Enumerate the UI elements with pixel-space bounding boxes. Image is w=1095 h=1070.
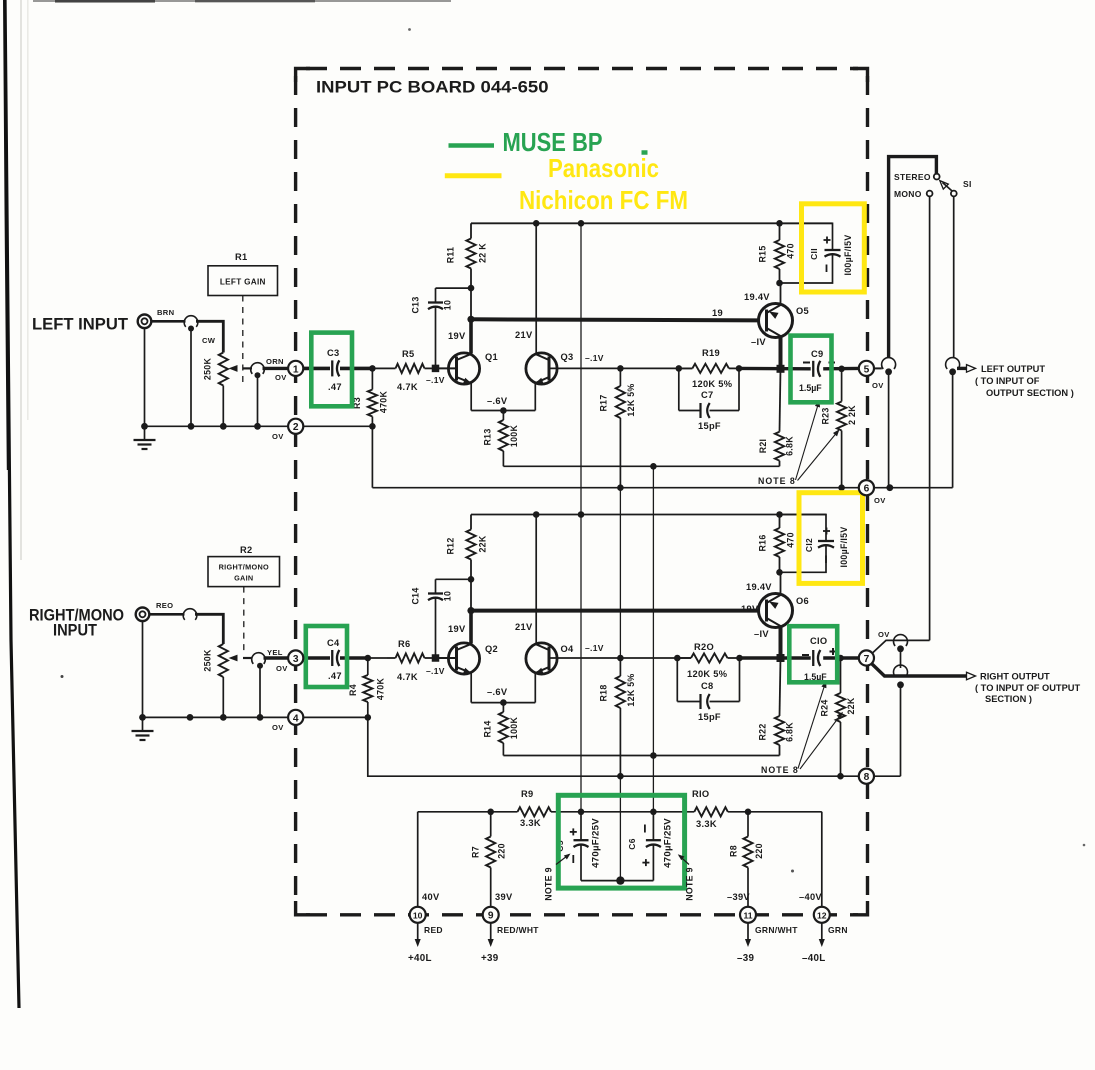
svg-text:–IV: –IV [751,337,766,347]
svg-text:19.4V: 19.4V [744,292,770,302]
resistor R21 [780,369,781,432]
wire lower loop node down to terminal 8 wire [900,686,902,776]
svg-text:GRN: GRN [828,925,848,935]
svg-text:Q3: Q3 [561,352,574,362]
node R23 bottom on NOTE8 rail [838,484,845,491]
PC board dashed border [294,76,297,908]
annotation green box C5 C6 [558,795,684,888]
svg-text:+39: +39 [481,953,499,964]
thick wire R19 right to terminal 5 [739,367,811,371]
wire terminal 10 tail with arrow [417,923,419,941]
node Q5 collector on output wire [777,365,785,373]
wire positive rail channel 2 [471,514,826,516]
resistor R19 [679,367,693,369]
svg-text:10: 10 [443,591,453,601]
svg-text:OV: OV [878,630,890,639]
svg-text:RED: RED [424,925,443,935]
svg-text:4.7K: 4.7K [397,672,418,682]
svg-text:19V: 19V [448,624,466,634]
thick wire Q2 collector to Q6 base [471,609,759,613]
connector loop left output [946,358,960,369]
svg-text:CI2: CI2 [804,538,814,552]
thick wire Q1 collector to Q5 base [471,319,759,320]
svg-text:19.4V: 19.4V [746,582,772,592]
svg-text:220: 220 [754,843,764,859]
svg-text:10: 10 [413,911,423,921]
node R19 right [736,365,743,372]
svg-text:I00µF/I5V: I00µF/I5V [843,234,853,275]
svg-text:4.7K: 4.7K [397,382,418,392]
svg-text:220: 220 [497,843,507,859]
wire 0V rail right input [143,716,289,718]
input jack J1 left [138,315,152,329]
node R15 top [776,220,783,227]
connector loop lower at terminal 7 [894,665,908,676]
svg-text:470µF/25V: 470µF/25V [663,818,674,868]
wire terminal 11 tail with arrow [747,923,749,941]
node C6 top [650,809,657,816]
svg-text:120K 5%: 120K 5% [687,669,728,679]
svg-text:C3: C3 [327,348,339,358]
svg-text:250K: 250K [203,649,213,672]
svg-text:100K: 100K [509,425,519,448]
wire terminal 12 tail with arrow [821,923,823,941]
svg-text:OV: OV [272,723,284,732]
svg-text:R2O: R2O [694,642,714,652]
node terminal 6 junction [886,484,893,491]
svg-text:R2: R2 [240,545,252,555]
svg-text:CII: CII [809,248,819,260]
node R11 bottom / C13 [468,285,475,292]
svg-text:–40V: –40V [799,892,822,902]
ground left input [134,439,156,441]
dashed coupling line R1 to pot [242,296,244,387]
svg-text:40V: 40V [422,892,440,902]
node below YEL loop [257,663,263,669]
wire terminal 1 to C3 [303,367,330,371]
svg-text:C4: C4 [327,638,340,648]
svg-text:–IV: –IV [754,629,769,639]
resistor R17 [619,368,621,386]
capacitor C10 [812,650,814,666]
C9 polarity marks [803,362,810,364]
wire R14 bottom rail to R22 [503,755,779,757]
node C6 line on rail 2 [650,752,657,759]
thick wire R20 right to terminal 7 [740,656,811,659]
svg-text:12K 5%: 12K 5% [626,383,636,416]
svg-text:5: 5 [864,364,870,375]
svg-text:R5: R5 [402,349,414,359]
svg-text:–.1V: –.1V [426,375,445,385]
node Q2 base junction [432,654,440,662]
svg-text:–.6V: –.6V [487,396,508,406]
svg-text:ORN: ORN [266,357,284,366]
terminal 8 [859,769,874,784]
thick wire collector drop to Q2 [469,611,473,644]
node center tap on ground link [616,876,624,884]
thick wire Q5 collector down to output [779,337,783,369]
svg-text:470K: 470K [376,678,386,701]
node thick bus channel 2 [467,607,474,614]
thick wire Q6 collector down to output [779,627,783,659]
svg-text:12K 5%: 12K 5% [626,673,636,706]
node C3/R3/R5 [369,365,376,372]
transistor Q5 [759,304,793,338]
wire ground link C5 C6 [581,880,653,882]
svg-text:R2I: R2I [758,439,768,454]
svg-text:.47: .47 [328,382,342,392]
NOTE 8 rail channel 2 [390,775,859,777]
NOTE 8 rail channel 1 [372,487,858,489]
node C10 right / R24 top [837,655,844,662]
wire rail to terminal 12 [821,812,823,907]
terminal 5 [859,361,874,376]
svg-text:R24: R24 [820,699,830,716]
wire junction to Q2 base [436,657,457,659]
svg-text:R15: R15 [758,245,768,262]
wire Q5 emitter up to R15 bottom [780,283,782,305]
wire Q3 emitter down [534,384,536,411]
svg-text:6.8K: 6.8K [785,722,795,742]
svg-text:Panasonic: Panasonic [548,153,659,183]
svg-text:15pF: 15pF [698,421,721,431]
node C4/R4/R6 [365,655,372,662]
node rail to C5 line [578,220,585,227]
wire terminal 2 to R3 bottom [303,425,372,427]
svg-text:NOTE 9: NOTE 9 [544,867,554,901]
svg-text:–40L: –40L [802,953,826,964]
left margin scan streaks [20,0,22,560]
wire Q4 collector to rail2 [535,515,537,644]
NOTE8 arrows to C9 and R23 [796,402,820,481]
svg-text:22K: 22K [846,697,856,714]
svg-text:12: 12 [817,911,827,921]
svg-text:O5: O5 [796,306,809,316]
node C5 top [578,809,585,816]
input jack J2 right [136,608,150,622]
thick wire left output arrow [957,367,967,370]
annotation green box C10 [789,626,837,682]
svg-text:R6: R6 [398,639,410,649]
svg-text:Q1: Q1 [485,352,498,362]
C12 plus mark [823,530,830,532]
wire Q2 emitter down [470,674,472,703]
wire C3 to node [340,367,372,371]
C11 minus mark [826,265,828,273]
svg-text:19: 19 [712,308,723,318]
wire 0V rail left input [145,425,289,427]
C12 minus mark [825,556,827,564]
svg-text:6.8K: 6.8K [785,436,795,456]
wire terminal 9 tail with arrow [490,923,492,941]
wire loop to pot corner [196,321,223,352]
C6 minus mark [644,825,646,833]
svg-text:R9: R9 [521,789,533,799]
node thick bus channel 1 [467,316,474,323]
wire YEL loop node down [259,667,261,717]
wire jack to ground right [142,621,144,731]
connector loop left input [184,316,198,327]
NOTE9 left arrow [556,855,569,865]
stray mark [61,675,64,678]
legend green tick [642,150,648,155]
annotation yellow box C12 [799,493,863,584]
annotation green box C4 [306,626,347,687]
resistor R23 [841,369,843,402]
node R16 top [776,511,783,518]
node below left output loop [949,368,956,375]
svg-text:LEFT GAIN: LEFT GAIN [220,278,266,287]
svg-text:SI: SI [963,179,972,189]
C5 minus mark [572,855,574,863]
svg-text:4: 4 [293,713,299,724]
wire Q3 collector to rail [535,223,537,353]
wire wiper to loop [222,386,224,427]
svg-text:R4: R4 [348,684,358,696]
ground right input [132,730,154,732]
svg-text:R11: R11 [446,247,456,264]
svg-text:2 2K: 2 2K [847,405,857,425]
svg-text:CW: CW [202,336,216,345]
annotation green box C9 [791,336,832,403]
node R7 top [487,809,494,816]
svg-text:Q2: Q2 [485,644,498,654]
node C6 drop line on rail [650,463,657,470]
resistor R18 [619,658,621,676]
svg-text:BRN: BRN [157,308,174,317]
svg-text:STEREO: STEREO [894,172,931,182]
node rail2 line B crossing [578,511,585,518]
wire positive rail channel 1 [471,222,833,224]
svg-text:INPUT PC BOARD 044-650: INPUT PC BOARD 044-650 [316,79,549,97]
wire R12 to thick bus node 2 [470,579,472,610]
terminal 10 [410,907,426,923]
svg-text:LEFT INPUT: LEFT INPUT [32,316,128,334]
node R14 top [500,699,507,706]
terminal 7 [859,650,874,665]
svg-text:RED/WHT: RED/WHT [497,925,539,935]
border corner top-left [296,69,310,83]
wire Q3 base to R17/R19 [549,367,692,369]
node below lower loop 7 [897,681,904,688]
terminal 1 [288,361,303,376]
transistor Q2 [448,643,479,674]
node R8 top [745,809,752,816]
svg-text:–.1V: –.1V [585,643,604,653]
node R24 bottom on NOTE8 rail 2 [837,773,844,780]
svg-text:REO: REO [156,601,173,610]
svg-text:39V: 39V [495,892,513,902]
capacitor C5 electrolytic [580,812,582,841]
wire node to R5 [372,367,387,369]
svg-text:OUTPUT SECTION ): OUTPUT SECTION ) [986,388,1074,398]
thick wire right output arrow [872,664,967,677]
svg-text:OV: OV [275,373,287,382]
svg-text:–.1V: –.1V [585,353,604,363]
resistor R4 [367,658,369,675]
node Q1 base junction [432,365,440,373]
resistor R15 [779,223,781,240]
node rail2 to Q4 collector line [533,511,540,518]
svg-text:SECTION ): SECTION ) [985,694,1032,704]
svg-text:100K: 100K [509,717,519,740]
svg-text:C9: C9 [811,349,823,359]
svg-text:22K: 22K [478,535,488,552]
thick wire terminal 5 riser to switch [889,157,937,358]
border corner top-right [853,69,868,83]
transistor Q3 [526,353,557,384]
C10 polarity marks [802,654,809,656]
svg-text:–.1V: –.1V [426,666,445,676]
svg-text:R13: R13 [483,428,493,445]
svg-text:R18: R18 [599,684,609,701]
resistor R24 [840,658,842,693]
terminal 4 [288,710,303,725]
capacitor C11 electrolytic [780,223,833,250]
resistor R22 [780,658,781,716]
svg-text:19V: 19V [448,331,466,341]
resistor R5 [387,367,396,369]
wire to terminal 1 [263,367,289,370]
connector loop ORN [251,363,265,374]
wire Q4 base to R18/R20 [549,657,691,659]
wire mono contact down to right channel [929,197,931,641]
capacitor C3 [331,360,333,376]
node R4 bottom [365,714,372,721]
C6 plus mark [642,862,649,864]
node R16 bottom [776,569,783,576]
connector loop YEL [252,653,266,664]
node C9 right / R23 top [838,366,845,373]
wire switch arm contact down to left output [953,197,955,358]
NOTE8-2 arrows to C10 and R24 [798,683,826,769]
svg-text:LEFT OUTPUT: LEFT OUTPUT [981,364,1045,374]
svg-text:22 K: 22 K [478,243,488,263]
node below upper loop 7 [897,645,904,652]
svg-text:470: 470 [786,243,796,259]
svg-text:15pF: 15pF [698,712,721,722]
svg-text:CIO: CIO [810,636,827,646]
switch S1 arm with arrowhead [937,178,948,189]
svg-text:NOTE 8: NOTE 8 [758,476,796,486]
node R13 top [500,407,507,414]
wire line B rail1 to C5 [580,223,582,812]
svg-text:YEL: YEL [267,648,283,657]
node R20 left [674,655,681,662]
svg-text:1: 1 [293,364,299,375]
svg-text:21V: 21V [515,330,533,340]
capacitor C7 with bracket [678,368,680,410]
svg-text:2: 2 [293,422,299,433]
svg-text:R12: R12 [446,537,456,554]
svg-text:R7: R7 [471,846,481,858]
NOTE9 right arrow [679,856,689,865]
potentiometer 250K left [219,353,228,386]
wire R13 bottom rail to R21 [503,465,779,467]
svg-text:7: 7 [864,654,870,665]
svg-text:NOTE 9: NOTE 9 [684,867,694,901]
wire pot bottom down [222,677,224,717]
svg-text:R14: R14 [483,720,493,737]
wire loop node down to 0V rail [190,330,192,426]
connector loop upper at terminal 7 [894,635,908,646]
svg-text:3: 3 [293,654,299,665]
node R18 bottom on NOTE8 rail 2 [617,773,624,780]
svg-text:10: 10 [443,300,453,310]
svg-text:3.3K: 3.3K [520,818,541,828]
wire -6V emitter rail 2 [471,702,535,704]
wire to terminal 3 [264,656,289,659]
capacitor C12 electrolytic [780,515,827,542]
svg-text:C8: C8 [701,681,713,691]
border corner bottom-right [853,901,868,915]
resistor R20 [677,657,691,659]
pot wiper arrow [243,367,252,369]
capacitor C6 electrolytic [652,812,654,841]
svg-text:19V: 19V [741,604,759,614]
svg-text:NOTE 8: NOTE 8 [761,765,799,775]
resistor R8 [747,812,749,837]
wire mono line corner to terminal 7 [872,640,929,653]
wire terminal 6 to output drop [874,487,953,489]
wire loop to pot corner right [195,614,223,644]
wire ORN loop node down [257,377,259,426]
svg-text:R8: R8 [729,845,739,857]
transistor Q6 [759,594,793,628]
C11 plus mark [824,239,831,241]
resistor R9 [518,807,552,816]
node R3 bottom [369,423,376,430]
wire jack to loop right input [149,613,184,616]
svg-text:470: 470 [786,532,796,548]
node R15 bottom [776,280,783,287]
scan page edge line (left margin) [5,0,19,1008]
wire loop5 node down to terminal 6 node [888,373,890,488]
stray speck top [408,28,411,31]
svg-text:OV: OV [276,664,288,673]
transistor Q4 [526,643,557,674]
svg-text:RIGHT OUTPUT: RIGHT OUTPUT [980,672,1050,682]
node R12 bottom / C14 [468,576,475,583]
wire Q6 emitter up to R16 bottom [780,572,782,594]
legend yellow line Panasonic [445,173,502,178]
svg-text:C6: C6 [627,838,637,849]
wire -6V emitter rail [471,410,535,412]
capacitor C8 with bracket [676,658,678,702]
svg-text:6: 6 [864,484,870,495]
node below ORN loop [255,372,261,378]
wire Q4 emitter down [534,674,536,703]
svg-text:C13: C13 [411,296,421,313]
svg-text:( TO INPUT OF OUTPUT: ( TO INPUT OF OUTPUT [975,683,1081,693]
svg-text:I00µF/I5V: I00µF/I5V [839,526,849,567]
resistor R10 [694,807,728,816]
resistor R16 [779,515,781,529]
svg-text:C7: C7 [701,390,713,400]
svg-text:–.6V: –.6V [487,687,508,697]
terminal 6 [859,480,874,495]
svg-text:O6: O6 [796,596,809,606]
wire between loops at terminal 7 [900,650,902,668]
switch S1 stereo contact [934,174,940,180]
pot wiper arrow right [243,657,252,659]
wire R3 node down to NOTE8 rail [371,426,373,487]
svg-text:470µF/25V: 470µF/25V [591,818,602,868]
wire R18 column to center tap [619,776,621,880]
dashed coupling line R2 to pot [243,587,245,653]
svg-text:R19: R19 [702,348,720,358]
node Q6 collector on output wire [777,654,785,662]
